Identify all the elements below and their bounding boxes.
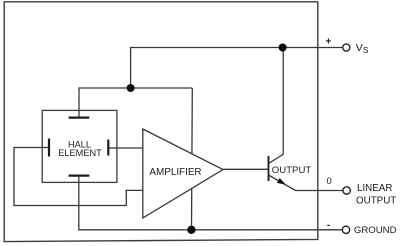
svg-text:+: + xyxy=(325,37,331,48)
svg-text:OUTPUT: OUTPUT xyxy=(272,165,312,176)
svg-text:V: V xyxy=(356,42,363,54)
svg-text:GROUND: GROUND xyxy=(354,225,397,236)
svg-text:ELEMENT: ELEMENT xyxy=(58,148,102,158)
svg-text:LINEAR: LINEAR xyxy=(357,183,392,194)
svg-text:-: - xyxy=(327,220,330,231)
svg-text:OUTPUT: OUTPUT xyxy=(356,195,396,206)
svg-text:0: 0 xyxy=(327,176,332,187)
svg-text:AMPLIFIER: AMPLIFIER xyxy=(149,167,201,178)
svg-text:S: S xyxy=(363,45,369,55)
